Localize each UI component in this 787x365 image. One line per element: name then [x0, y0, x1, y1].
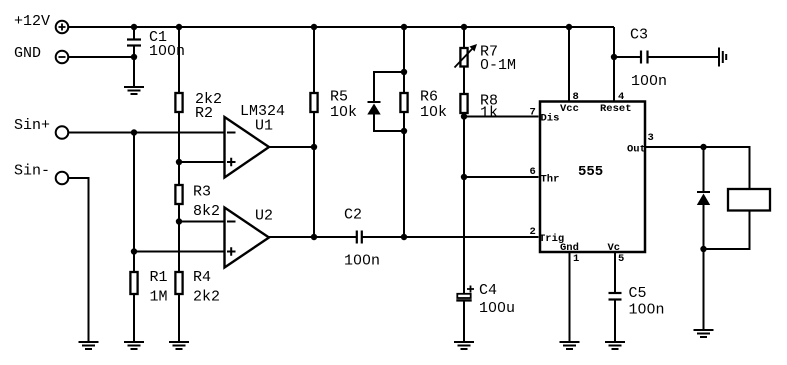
junction Thr	[461, 174, 467, 180]
capacitor C4 polarized	[456, 294, 471, 301]
wire U2 output	[269, 236, 356, 238]
wire U2 + input stub	[134, 251, 225, 253]
svg-text:C3: C3	[630, 27, 648, 44]
junction U2 output C2	[311, 234, 317, 240]
diode D2	[697, 192, 710, 205]
wire D2 bottom to ground node	[703, 205, 705, 329]
svg-text:100u: 100u	[479, 300, 515, 317]
wire R7 top from rail	[463, 27, 465, 48]
junction rail R7	[461, 24, 467, 30]
svg-text:1M: 1M	[150, 289, 168, 306]
terminal Sin+	[56, 126, 69, 139]
wire Sin- down to ground	[69, 178, 89, 341]
svg-text:2: 2	[530, 226, 536, 238]
wire R7 bottom to R8 top	[463, 67, 465, 95]
svg-text:6: 6	[530, 166, 536, 178]
wire R8 bottom node to Dis pin 7	[464, 113, 539, 117]
terminal Sin-	[56, 172, 69, 185]
relay K1 coil	[728, 189, 770, 211]
ground below C1	[124, 87, 144, 94]
svg-text:R5: R5	[330, 89, 348, 106]
svg-text:2k2: 2k2	[193, 289, 220, 306]
svg-text:R4: R4	[193, 269, 211, 286]
svg-text:GND: GND	[14, 45, 41, 62]
resistor R6	[400, 93, 407, 112]
junction C1 gnd	[131, 54, 137, 60]
ground relay	[694, 330, 714, 337]
resistor R4	[175, 272, 182, 294]
wire R4 bottom to ground	[178, 294, 180, 341]
svg-text:+12V: +12V	[14, 13, 50, 30]
ground C5	[605, 342, 625, 349]
svg-text:8k2: 8k2	[193, 203, 220, 220]
wire Gnd pin 1 to ground	[569, 252, 571, 341]
svg-text:8: 8	[573, 91, 579, 103]
wire C2 right to 555 Trig pin 2	[362, 236, 539, 238]
wire U1 output	[269, 146, 314, 148]
wire R2 top from rail	[178, 27, 180, 93]
ground R4	[169, 342, 189, 349]
wire diode D1 parallel loop top	[374, 72, 404, 101]
label R7 value	[480, 57, 516, 74]
junction diode loop top	[401, 69, 407, 75]
svg-text:R3: R3	[193, 184, 211, 201]
capacitor C1	[127, 40, 141, 46]
svg-text:4: 4	[618, 91, 624, 103]
wire C1 bottom stub to ground	[133, 47, 135, 87]
svg-text:U2: U2	[255, 208, 273, 225]
svg-text:C5: C5	[629, 285, 647, 302]
op-amp U1	[225, 117, 270, 178]
wire Reset pin 4 drop from rail corner	[613, 27, 615, 102]
capacitor C5	[609, 293, 622, 300]
svg-text:Dis: Dis	[541, 113, 560, 125]
svg-text:R6: R6	[420, 89, 438, 106]
wire C3 right to side ground	[648, 56, 718, 58]
wire D2 top stub	[703, 147, 705, 192]
svg-text:100n: 100n	[344, 253, 380, 270]
svg-text:Thr: Thr	[541, 174, 560, 186]
wire R6 top from rail	[403, 27, 405, 93]
label C5 value	[629, 302, 665, 319]
junction R8 Dis	[461, 113, 467, 119]
IC U3 555 box	[540, 102, 645, 253]
svg-text:1: 1	[573, 253, 579, 265]
svg-text:C2: C2	[344, 207, 362, 224]
wire +12V rail	[69, 26, 615, 28]
svg-text:3: 3	[648, 132, 654, 144]
wire C3 left from reset node	[614, 56, 640, 58]
junction U2 minus node	[176, 218, 182, 224]
junction R6 trigger line	[401, 234, 407, 240]
capacitor C2	[357, 231, 362, 244]
svg-text:1k: 1k	[480, 105, 498, 122]
svg-text:R1: R1	[150, 269, 168, 286]
resistor R3	[175, 185, 182, 204]
wire timing node down to C4 crossing trigger line	[463, 177, 465, 294]
wire R2 bottom to R3 top through U1+ node	[178, 112, 180, 185]
wire Vc pin 5 to C5	[614, 252, 616, 293]
svg-text:Sin+: Sin+	[14, 117, 50, 134]
junction U1 output R5	[311, 144, 317, 150]
junction rail R5	[311, 24, 317, 30]
ground 555 pin1	[560, 342, 580, 349]
wire R5 bottom to U1 output node	[313, 112, 315, 147]
label R5 value	[330, 104, 357, 121]
svg-text:Reset: Reset	[600, 103, 632, 115]
svg-text:Out: Out	[627, 144, 646, 156]
wire Out pin 3 to relay branch	[645, 147, 750, 189]
junction Sin+ branch	[131, 129, 137, 135]
terminal +12V	[56, 21, 69, 34]
label C4 plus	[467, 286, 474, 293]
junction Out diode D2	[700, 144, 706, 150]
wire Vcc pin 8 from rail	[568, 27, 570, 102]
svg-text:5: 5	[618, 253, 624, 265]
label C1 value	[149, 43, 185, 60]
ground Sin-	[79, 342, 99, 349]
junction U1 plus node	[176, 159, 182, 165]
label R6 value	[420, 104, 447, 121]
wire node A column x=134 (Sin+ branch down to U2+ and R1)	[133, 133, 135, 273]
wire diode D1 parallel loop bottom	[374, 115, 404, 132]
junction D2 relay bottom	[700, 246, 706, 252]
wire R5 top from rail	[313, 27, 315, 93]
ground R1	[124, 342, 144, 349]
resistor R8	[460, 94, 467, 113]
wire C4 bottom to ground	[463, 301, 465, 341]
junction diode loop bottom	[401, 128, 407, 134]
svg-text:Sin-: Sin-	[14, 163, 50, 180]
wire Sin+ to U1 inverting input	[69, 132, 225, 134]
svg-text:7: 7	[530, 107, 536, 119]
wire timing node down to Thr pin 6	[464, 117, 539, 178]
wire relay bottom to ground node	[704, 211, 750, 250]
wire C5 bottom to ground	[614, 300, 616, 341]
label C2 value	[344, 253, 380, 270]
resistor R2	[175, 93, 182, 112]
svg-text:100n: 100n	[629, 302, 665, 319]
op-amp U2	[225, 208, 270, 268]
wire R1 bottom to ground	[133, 294, 135, 341]
junction reset C3	[611, 54, 617, 60]
wire GND feed to C1	[69, 56, 135, 58]
wire U1 + input stub	[179, 161, 225, 163]
junction rail C1	[131, 24, 137, 30]
ground C4	[454, 342, 474, 349]
junction U2 plus node	[131, 248, 137, 254]
terminal GND	[56, 51, 69, 64]
resistor R5	[310, 93, 317, 112]
svg-text:100n: 100n	[631, 73, 667, 90]
diode D1	[367, 102, 380, 115]
resistor R1	[130, 272, 137, 294]
wire U2 - input stub	[179, 221, 225, 223]
svg-text:U1: U1	[255, 118, 273, 135]
wire R6 bottom to trigger line	[403, 112, 405, 237]
svg-text:555: 555	[578, 164, 603, 180]
svg-text:100n: 100n	[149, 43, 185, 60]
junction rail Vcc pin8	[566, 24, 572, 30]
svg-text:Vcc: Vcc	[560, 103, 579, 115]
capacitor C3	[641, 51, 648, 64]
label C4 value	[479, 300, 515, 317]
svg-text:C4: C4	[479, 282, 497, 299]
junction rail R6	[401, 24, 407, 30]
label C3 value	[631, 73, 667, 90]
junction rail R2	[176, 24, 182, 30]
wire C1 top stub	[133, 27, 135, 39]
wire U1 out node down to U2 out node	[313, 147, 315, 237]
resistor R7 variable	[455, 44, 478, 68]
wire R3 bottom to R4 top through U2- node	[178, 204, 180, 272]
svg-text:R2: R2	[195, 105, 213, 122]
ground sideways C3	[719, 48, 726, 67]
